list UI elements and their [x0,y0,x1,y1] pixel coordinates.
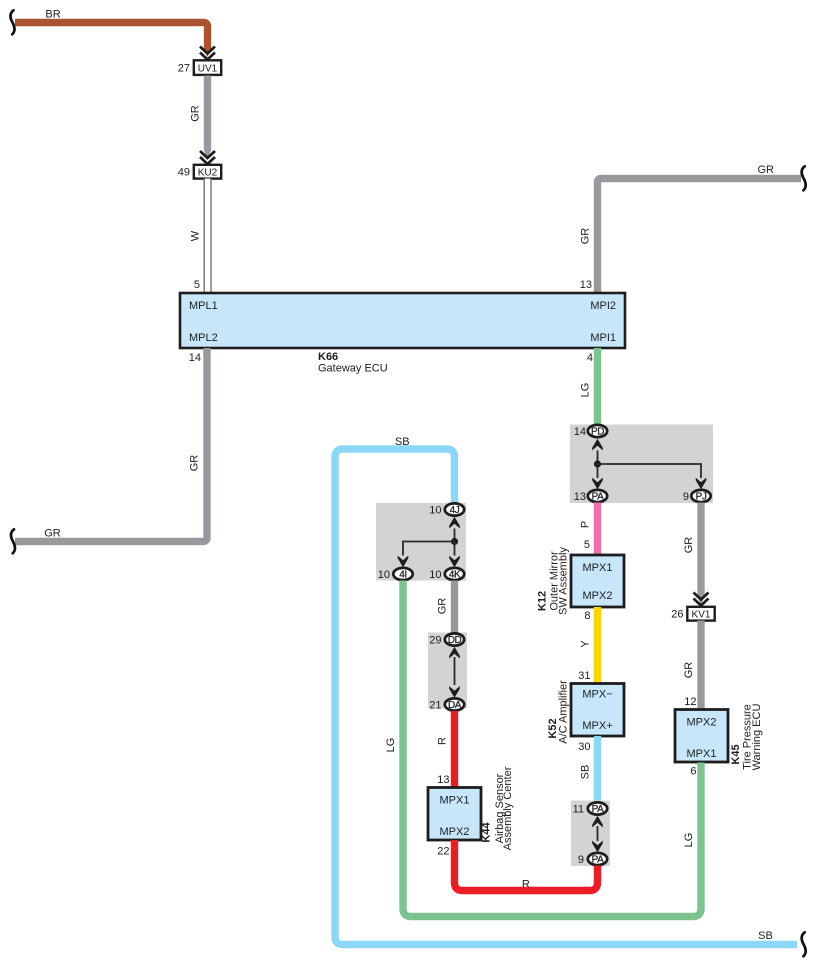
oval connector PJ pin 9 [691,490,710,502]
svg-text:DD: DD [448,635,462,646]
wire SB K52 to PA(11) [594,736,601,802]
junction dot [594,460,601,467]
svg-text:49: 49 [178,167,190,179]
svg-text:GR: GR [190,105,202,122]
svg-text:4: 4 [587,352,593,364]
svg-text:29: 29 [429,635,441,647]
wire R DA to K44 pin 13 [451,711,458,788]
svg-text:6: 6 [690,766,696,778]
svg-text:12: 12 [684,696,696,708]
svg-text:GR: GR [683,662,695,679]
double arrow between DD and DA [454,657,456,685]
wire GR arrow tip [204,150,211,159]
arrow down to PA [597,464,599,478]
wire LG from K66 pin 4 to PD [594,348,601,425]
svg-text:14: 14 [574,426,586,438]
connector shield box PA/PA [571,801,610,867]
svg-text:9: 9 [578,854,584,866]
svg-text:9: 9 [683,491,689,503]
connector shield box DD/DA [428,633,467,709]
svg-text:5: 5 [584,539,590,551]
svg-text:DA: DA [448,700,462,711]
svg-text:MPX−: MPX− [582,689,612,701]
wire GR PJ to KV1 [697,503,704,598]
svg-text:4I: 4I [399,570,406,581]
svg-text:K66: K66 [318,351,338,363]
svg-text:10: 10 [429,505,441,517]
arrow down to 4K [454,542,456,556]
svg-text:13: 13 [437,774,449,786]
ECU K52 A/C Amplifier [571,684,624,737]
arrow down to PJ [696,478,707,490]
ECU K66 Gateway ECU box [180,293,625,348]
ECU K12 Outer Mirror SW Assembly [571,555,624,607]
svg-text:MPI2: MPI2 [590,300,616,312]
svg-text:MPX1: MPX1 [687,748,717,760]
chevron into KU2 [200,151,215,164]
svg-text:LG: LG [580,383,592,398]
wire R loop K44 pin22 to PA(9) [455,840,598,891]
svg-text:Assembly Center: Assembly Center [502,766,514,850]
svg-text:LG: LG [385,738,397,753]
svg-text:PA: PA [592,492,604,503]
svg-text:SB: SB [395,436,410,448]
wire GR 4K to DD [451,581,458,634]
chevron into UV1 [200,47,215,60]
svg-text:MPX2: MPX2 [687,717,717,729]
ECU K44 Airbag Sensor Assembly Center [428,788,481,841]
svg-text:MPL2: MPL2 [189,332,218,344]
wire BR arrow tip [204,48,211,57]
svg-text:MPI1: MPI1 [590,332,616,344]
svg-text:14: 14 [189,352,201,364]
link line to 4I [403,542,455,556]
break squiggle right end SB [802,932,806,956]
svg-text:30: 30 [578,741,590,753]
arrow down to 4I [398,556,409,568]
svg-text:13: 13 [580,279,592,291]
wire GR from right edge to K66 pin 13 [598,179,802,294]
svg-text:A/C Amplifier: A/C Amplifier [558,680,570,744]
wire LG loop K45 pin 6 to 4I [403,581,701,917]
svg-text:PD: PD [591,427,604,438]
svg-text:GR: GR [189,455,201,472]
svg-text:R: R [437,737,449,745]
svg-text:5: 5 [194,279,200,291]
break squiggle left end of BR [10,10,14,34]
svg-text:MPX1: MPX1 [583,562,613,574]
connector UV1 pin 27 [194,60,221,75]
svg-text:KU2: KU2 [198,167,218,178]
svg-text:27: 27 [178,63,190,75]
svg-text:Gateway ECU: Gateway ECU [318,363,388,375]
svg-text:SB: SB [758,930,773,942]
wire SB big loop from 4J up-left-down-right to right edge [335,449,797,945]
svg-text:Y: Y [580,640,592,648]
wire P from PA to K12 pin 5 [594,503,601,556]
wire BR horizontal+vertical top-left [15,23,208,50]
svg-text:MPX2: MPX2 [440,826,470,838]
connector KU2 pin 49 [194,165,221,179]
wire GR from K66 pin 14 down-left to edge [15,348,207,542]
wire Y K12 to K52 [594,607,601,684]
break squiggle left end GR [11,529,15,553]
svg-text:UV1: UV1 [198,63,218,74]
oval connector PA pin 9 [588,853,607,865]
wire W (white with outlines) KU2 to K66 pin 5 [204,179,211,294]
svg-text:MPX+: MPX+ [582,720,612,732]
svg-text:GR: GR [683,537,695,554]
svg-text:GR: GR [757,164,774,176]
svg-text:Warning ECU: Warning ECU [751,704,763,771]
connector shield box 4J/4I/4K [376,503,466,581]
oval connector PA pin 13 [588,490,607,502]
svg-text:K44: K44 [481,822,493,843]
svg-text:PJ: PJ [696,492,707,503]
svg-text:KV1: KV1 [692,609,711,620]
svg-text:SW Assembly: SW Assembly [558,547,570,615]
svg-text:8: 8 [584,610,590,622]
svg-text:22: 22 [437,846,449,858]
link line to PJ [598,464,702,478]
svg-text:26: 26 [671,609,683,621]
oval connector 4K pin 10 [445,568,464,580]
svg-text:GR: GR [44,528,61,540]
svg-text:P: P [580,521,592,528]
svg-text:MPX2: MPX2 [583,590,613,602]
svg-text:MPL1: MPL1 [189,300,218,312]
connector shield box PD/PA/PJ [570,425,713,504]
svg-text:21: 21 [429,700,441,712]
oval connector PD pin 14 [588,425,607,437]
svg-text:4J: 4J [450,505,460,516]
svg-text:K45: K45 [730,744,742,764]
svg-text:31: 31 [578,670,590,682]
svg-text:10: 10 [378,569,390,581]
svg-text:LG: LG [683,833,695,848]
svg-text:GR: GR [580,228,592,245]
oval connector 4J pin 10 [445,503,464,515]
wire GR arrow tip [697,596,704,605]
svg-text:MPX1: MPX1 [440,795,470,807]
svg-text:10: 10 [429,569,441,581]
svg-text:R: R [522,879,530,891]
chevron into KV1 [694,593,709,606]
svg-text:GR: GR [437,598,449,615]
svg-text:K12: K12 [537,591,549,611]
svg-text:PA: PA [592,804,604,815]
double arrow between PA11 and PA9 [597,826,599,841]
oval connector 4I pin 10 [393,568,412,580]
junction dot [451,538,458,545]
svg-text:W: W [190,230,202,241]
svg-text:BR: BR [45,9,60,21]
arrow up to PD [597,451,599,465]
svg-text:13: 13 [574,491,586,503]
oval connector DA pin 21 [445,698,464,710]
oval connector PA pin 11 [588,802,607,814]
wire GR KV1 to K45 pin 12 [697,621,704,710]
oval connector DD pin 29 [445,633,464,645]
svg-text:11: 11 [573,804,584,816]
wire GR UV1 to KU2 [204,76,211,152]
arrow up to 4J [454,529,456,542]
ECU K45 Tire Pressure Warning ECU [675,710,728,763]
svg-text:PA: PA [592,855,604,866]
connector KV1 pin 26 [687,607,714,621]
break squiggle right end of GR [802,166,806,190]
svg-text:4K: 4K [449,570,461,581]
svg-text:SB: SB [580,765,592,780]
